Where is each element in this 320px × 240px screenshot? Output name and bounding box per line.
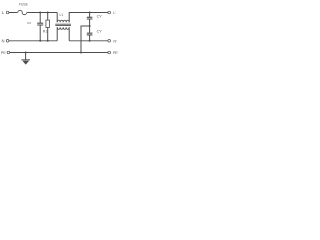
capacitor CY2 bottom lead — [89, 35, 91, 41]
terminal PE — [7, 51, 10, 54]
svg-text:CY: CY — [97, 29, 103, 34]
svg-text:L1: L1 — [60, 13, 64, 17]
fuse F1 — [18, 10, 27, 14]
node C junction dot (CY1 top) — [89, 12, 91, 14]
capacitor CY2 top lead — [89, 26, 91, 33]
resistor R1 top lead — [47, 13, 49, 21]
wire L input to fuse — [9, 12, 18, 14]
node H junction dot (ground tap) — [25, 52, 27, 54]
svg-text:CY: CY — [97, 14, 103, 19]
node G junction dot (R1 bottom) — [47, 40, 49, 42]
choke L1 top-left lead — [56, 13, 58, 23]
svg-text:R1: R1 — [43, 29, 48, 33]
capacitor CY1 bottom lead — [89, 19, 91, 26]
capacitor CX top lead — [39, 13, 41, 24]
capacitor CY1 plates — [87, 17, 93, 19]
svg-text:L': L' — [113, 11, 116, 15]
node F junction dot (CX bottom) — [39, 40, 41, 42]
terminal L — [6, 11, 9, 14]
resistor R1 body — [46, 20, 50, 27]
svg-text:N: N — [2, 39, 5, 44]
wire N rail right — [69, 40, 108, 42]
terminal L' — [108, 11, 111, 14]
choke L1 top winding — [57, 20, 69, 22]
capacitor CY2 plates — [87, 33, 93, 35]
resistor R1 bottom lead — [47, 27, 49, 40]
terminal N' — [108, 40, 111, 43]
svg-text:PE': PE' — [113, 51, 119, 55]
node I junction dot (CY midpoint to PE) — [80, 52, 82, 54]
ground stem — [25, 53, 27, 60]
choke L1 core lines — [55, 24, 71, 25]
wire N rail left — [9, 40, 57, 42]
node D junction dot (CY midpoint) — [89, 25, 91, 27]
terminal N — [6, 40, 9, 43]
svg-text:FUSE: FUSE — [19, 3, 29, 7]
node B junction dot (R1 top) — [47, 12, 49, 14]
node E junction dot (CY2 on N rail) — [89, 40, 91, 42]
capacitor CX bottom lead — [39, 25, 41, 41]
node A junction dot (CX top) — [39, 12, 41, 14]
choke L1 bottom winding — [57, 27, 69, 29]
choke L1 bottom-right lead — [68, 27, 70, 41]
wire PE rail — [10, 52, 108, 54]
svg-text:L: L — [2, 10, 5, 15]
choke L1 top-right lead — [69, 13, 108, 23]
ground triangle — [22, 61, 29, 65]
wire fuse to node A — [27, 12, 57, 14]
svg-text:CX: CX — [27, 21, 31, 25]
svg-text:N': N' — [113, 40, 117, 44]
capacitor CX plates — [37, 23, 43, 25]
terminal PE' — [108, 51, 111, 54]
svg-text:PE: PE — [1, 51, 6, 55]
ground bar — [21, 59, 30, 61]
capacitor CY1 top lead — [89, 13, 91, 18]
choke L1 bottom-left lead — [56, 27, 58, 41]
wire midpoint jog to PE drop — [81, 26, 90, 53]
